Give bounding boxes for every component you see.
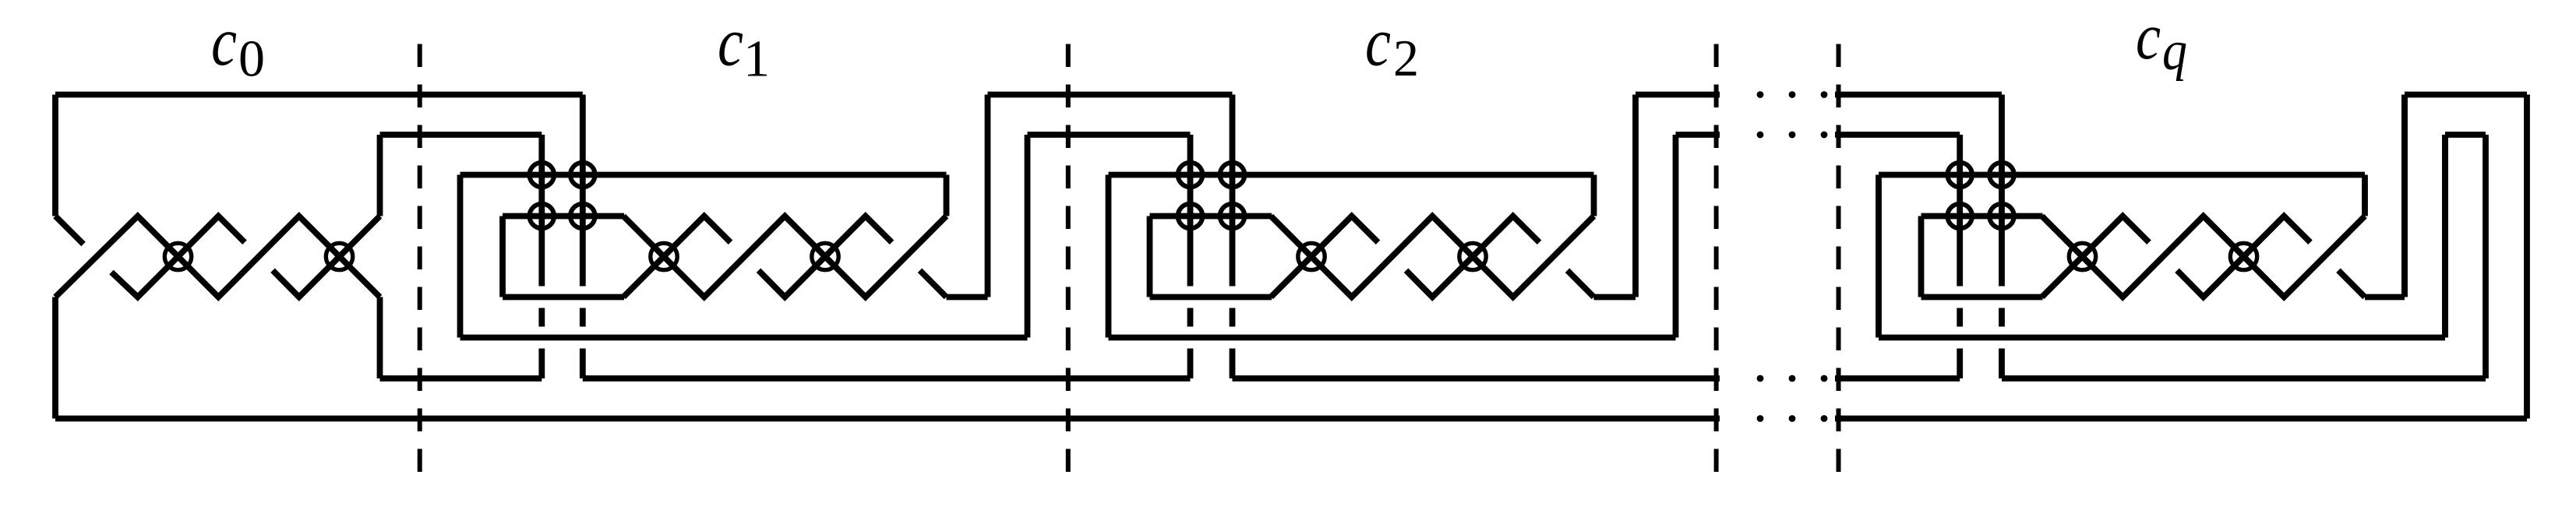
- c_0 tangle strand B (enters descending) part 2: [111, 216, 245, 297]
- bus: c_0 to c_1 col1: [380, 375, 542, 382]
- c_2 inner bracket top horizontal: [1150, 213, 1272, 220]
- svg-text:1: 1: [743, 30, 770, 88]
- c_2 circle column 1 piece 2: [1187, 308, 1194, 327]
- c_0 tangle circled crossing at x=228.5: [164, 243, 191, 269]
- second line: c_2 to ellipsis: [1676, 132, 1720, 138]
- bus: c_q col2 to closure: [2002, 375, 2486, 382]
- bottom border: left to ellipsis: [55, 416, 1720, 422]
- c_0 tangle strand B (enters descending) part 3: [273, 216, 380, 297]
- c_2 circle column 2 piece 3: [1230, 349, 1236, 379]
- c_2 tangle circled crossing at x=1683: [1298, 243, 1325, 269]
- ellipsis dot top row #1: [1757, 91, 1764, 98]
- c_1 circled crossing at (747.8,277.5): [570, 204, 595, 229]
- c_2 tangle bottom-exit horizontal: [1594, 294, 1636, 301]
- c_0 tangle strand A (enters ascending) part 1: [55, 216, 380, 297]
- c_1 circle column 2 piece 2: [580, 308, 586, 327]
- ellipsis dot second row #2: [1789, 132, 1796, 139]
- c_2 tangle strand A (enters ascending) part 1: [1271, 216, 1378, 297]
- second line: c_1 to c_2 col1: [1028, 132, 1191, 138]
- c_1 circled crossing at (695.3,224.5): [530, 163, 555, 188]
- svg-text:c: c: [1365, 5, 1391, 81]
- left border top vertical: [52, 95, 58, 216]
- right border vertical: [2524, 95, 2530, 419]
- dashed separator line 4: [1837, 44, 1841, 473]
- c_q inner bracket top horizontal: [1921, 213, 2043, 220]
- c_1 circle column 1 piece 2: [538, 308, 545, 327]
- svg-text:c: c: [2136, 0, 2161, 73]
- c_q circled crossing at (2569,277.5): [1989, 204, 2014, 229]
- c_1 circle column 1 piece 3: [538, 349, 545, 379]
- bus: c_1 col2 to c_2 col1: [583, 375, 1191, 382]
- closure vertical 1: [2401, 95, 2408, 297]
- c_1 big-box top edge: [461, 172, 947, 178]
- top line: c_1 to c_2 col2: [988, 92, 1233, 98]
- c_1 inner bracket top horizontal: [503, 213, 624, 220]
- c_2 tangle strand A (enters ascending) part 3: [1568, 270, 1594, 297]
- c_q circle column 2 piece 1: [1999, 95, 2005, 287]
- c_0 tangle circled crossing at x=435.5: [326, 243, 352, 269]
- ellipsis dot top row #2: [1789, 91, 1796, 98]
- c_2 big-box bottom edge: [1109, 335, 1676, 341]
- c_1 circle column 1 piece 1: [538, 135, 545, 287]
- c_2 inner box bottom edge: [1150, 294, 1272, 301]
- c_1 tangle bottom-exit horizontal: [947, 294, 988, 301]
- second line: c_q closure: [2445, 132, 2486, 138]
- c_q circled crossing at (2569,224.5): [1989, 163, 2014, 188]
- c_2 circle column 2 piece 1: [1230, 95, 1236, 287]
- c_1 tangle top-exit vertical: [944, 175, 950, 216]
- c_2 inner bracket left vertical: [1147, 216, 1153, 297]
- ellipsis dot second row #3: [1821, 132, 1828, 139]
- top line: c_q closure: [2405, 92, 2527, 98]
- c_2 circled crossing at (1581.5,224.5): [1220, 163, 1245, 188]
- c_2 circle column 1 piece 1: [1187, 135, 1194, 287]
- closure vertical 3: [2482, 135, 2489, 378]
- c_q tangle top-exit vertical: [2362, 175, 2368, 216]
- c_2 tangle circled crossing at x=1890: [1459, 243, 1486, 269]
- c_q circle column 1 piece 2: [1957, 308, 1963, 327]
- c_q tangle strand B (enters descending) part 1: [2042, 216, 2366, 297]
- bottom border: ellipsis to right: [1835, 416, 2527, 422]
- c_q tangle strand A (enters ascending) part 1: [2042, 216, 2150, 297]
- c_1 tangle strand A (enters ascending) part 3: [920, 270, 947, 297]
- c_q tangle strand A (enters ascending) part 3: [2338, 270, 2365, 297]
- second line: ellipsis to c_q col1: [1835, 132, 1960, 138]
- c_1 outer bridge vertical: [985, 95, 991, 297]
- top line: ellipsis to c_q col2: [1835, 92, 2002, 98]
- bus: ellipsis to c_q col1: [1835, 375, 1960, 382]
- svg-text:c: c: [211, 4, 237, 80]
- ellipsis dot bus row #2: [1789, 375, 1796, 382]
- c_q circled crossing at (2515.2,277.5): [1947, 204, 1972, 229]
- c_2 circle column 2 piece 2: [1230, 308, 1236, 327]
- c_0 top-exit vertical: [377, 135, 383, 216]
- ellipsis dot top row #3: [1821, 91, 1828, 98]
- c_q inner bridge vertical: [2442, 135, 2448, 338]
- c_q outer bridge vertical: [2401, 95, 2408, 297]
- svg-text:q: q: [2162, 19, 2187, 82]
- c_q inner box bottom edge: [1921, 294, 2043, 301]
- c_1 circle column 2 piece 3: [580, 349, 586, 379]
- left border bottom vertical: [52, 297, 58, 419]
- c_2 tangle strand A (enters ascending) part 2: [1406, 216, 1540, 297]
- c_1 tangle circled crossing at x=852: [651, 243, 677, 269]
- c_1 inner bracket left vertical: [499, 216, 506, 297]
- c_2 circled crossing at (1581.5,277.5): [1220, 204, 1245, 229]
- c_q big-box top edge: [1879, 172, 2365, 178]
- c_2 circle column 1 piece 3: [1187, 349, 1194, 379]
- dashed separator line 3: [1714, 44, 1719, 473]
- closure vertical 2: [2442, 135, 2448, 338]
- c_1 circle column 2 piece 1: [580, 95, 586, 287]
- ellipsis dot bottom row #2: [1789, 415, 1796, 422]
- c_q tangle circled crossing at x=2672.5: [2069, 243, 2095, 269]
- dashed separator line 1: [418, 44, 422, 473]
- c_1 inner box bottom edge: [503, 294, 624, 301]
- c_1 tangle circled crossing at x=1059: [812, 243, 838, 269]
- top line: c_2 to ellipsis: [1636, 92, 1720, 98]
- c_1 circled crossing at (695.3,277.5): [530, 204, 555, 229]
- c_1 big-box bottom edge: [461, 335, 1028, 341]
- svg-text:2: 2: [1393, 30, 1419, 87]
- c_q tangle circled crossing at x=2879.5: [2230, 243, 2257, 269]
- c_0 tangle strand B (enters descending) part 1: [55, 216, 83, 244]
- c_1 inner bridge vertical: [1025, 135, 1031, 338]
- top line: left border to c_1 col2: [55, 92, 583, 98]
- second line: c_0 exit to c_1 col1: [380, 132, 542, 138]
- c_2 big-box left vertical: [1106, 175, 1112, 338]
- c_q circle column 2 piece 2: [1999, 308, 2005, 327]
- c_2 tangle strand B (enters descending) part 1: [1271, 216, 1594, 297]
- c_q big-box bottom edge: [1879, 335, 2445, 341]
- c_2 circled crossing at (1527.5,277.5): [1178, 204, 1203, 229]
- ellipsis dot second row #1: [1757, 132, 1764, 139]
- c_q circle column 2 piece 3: [1999, 349, 2005, 379]
- svg-text:0: 0: [238, 30, 265, 88]
- dashed separator line 2: [1066, 44, 1071, 473]
- c_1 circled crossing at (747.8,224.5): [570, 163, 595, 188]
- c_1 big-box left vertical: [457, 175, 464, 338]
- c_2 outer bridge vertical: [1632, 95, 1639, 297]
- c_q big-box left vertical: [1876, 175, 1882, 338]
- bus: c_2 col2 to ellipsis: [1233, 375, 1720, 382]
- c_0 bottom-exit vertical: [377, 297, 383, 379]
- c_q inner bracket left vertical: [1918, 216, 1925, 297]
- c_1 tangle strand A (enters ascending) part 2: [759, 216, 892, 297]
- svg-text:c: c: [718, 5, 743, 81]
- ellipsis dot bottom row #1: [1757, 415, 1764, 422]
- c_1 tangle strand B (enters descending) part 1: [623, 216, 947, 297]
- c_2 big-box top edge: [1109, 172, 1594, 178]
- ellipsis dot bottom row #3: [1821, 415, 1828, 422]
- c_q tangle strand A (enters ascending) part 2: [2177, 216, 2310, 297]
- c_2 tangle top-exit vertical: [1591, 175, 1597, 216]
- c_2 inner bridge vertical: [1673, 135, 1679, 338]
- c_q tangle bottom-exit horizontal: [2365, 294, 2405, 301]
- c_q circle column 1 piece 3: [1957, 349, 1963, 379]
- ellipsis dot bus row #1: [1757, 375, 1764, 382]
- c_q circle column 1 piece 1: [1957, 135, 1963, 287]
- c_q circled crossing at (2515.2,224.5): [1947, 163, 1972, 188]
- c_1 tangle strand A (enters ascending) part 1: [623, 216, 731, 297]
- c_2 circled crossing at (1527.5,224.5): [1178, 163, 1203, 188]
- ellipsis dot bus row #3: [1821, 375, 1828, 382]
